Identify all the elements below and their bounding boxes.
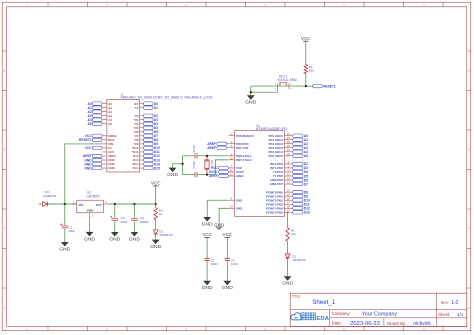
- svg-text:VCC: VCC: [151, 181, 161, 186]
- svg-text:1N4007W: 1N4007W: [292, 258, 306, 262]
- svg-text:ARDUINO_R3_SHIELDUNO_R3_SHIELD: ARDUINO_R3_SHIELDUNO_R3_SHIELD_NOLABELS_…: [121, 96, 214, 100]
- svg-text:ATMEGA328P-PU: ATMEGA328P-PU: [256, 127, 287, 131]
- svg-text:PB7 XTAL2: PB7 XTAL2: [236, 158, 252, 162]
- svg-text:10k: 10k: [309, 69, 314, 73]
- svg-text:TX: TX: [135, 106, 139, 110]
- svg-text:Company:: Company:: [332, 311, 351, 316]
- svg-text:OUT: OUT: [96, 203, 102, 207]
- svg-text:VCC: VCC: [202, 232, 212, 237]
- svg-text:A5: A5: [108, 122, 112, 126]
- svg-text:GND: GND: [87, 208, 93, 212]
- svg-text:10uF: 10uF: [68, 229, 75, 233]
- svg-text:GND: GND: [129, 236, 140, 242]
- svg-text:GND: GND: [84, 236, 95, 242]
- svg-text:10uF: 10uF: [121, 220, 128, 224]
- svg-text:K4-6-6_SMD: K4-6-6_SMD: [278, 78, 298, 82]
- svg-text:GND: GND: [202, 221, 213, 227]
- svg-text:PCINT5 PB5: PCINT5 PB5: [266, 210, 283, 214]
- svg-text:Your Company: Your Company: [362, 312, 398, 318]
- svg-text:1N4007W: 1N4007W: [43, 194, 57, 198]
- svg-text:2023-06-23: 2023-06-23: [350, 321, 380, 327]
- svg-text:D13: D13: [304, 211, 310, 215]
- svg-text:EDA: EDA: [316, 316, 329, 322]
- svg-text:Drawn By:: Drawn By:: [387, 321, 406, 326]
- svg-text:GND: GND: [282, 281, 293, 287]
- svg-text:B: B: [468, 69, 470, 73]
- svg-text:VCC: VCC: [301, 36, 311, 41]
- svg-text:1N4007W: 1N4007W: [159, 233, 173, 237]
- svg-text:AREF: AREF: [207, 146, 216, 150]
- svg-text:PC5 ADC5: PC5 ADC5: [269, 154, 284, 158]
- svg-text:RESET1: RESET1: [323, 84, 336, 88]
- svg-text:C5 22p: C5 22p: [194, 161, 196, 169]
- svg-text:D1: D1: [154, 106, 158, 110]
- svg-text:GND: GND: [214, 222, 225, 227]
- svg-text:GND: GND: [59, 246, 70, 252]
- svg-text:AREF: AREF: [236, 174, 244, 178]
- svg-text:B: B: [4, 69, 6, 73]
- svg-text:GND: GND: [202, 285, 213, 291]
- svg-text:GND: GND: [236, 206, 243, 210]
- svg-text:D: D: [3, 148, 5, 152]
- svg-text:100nf: 100nf: [211, 262, 218, 266]
- svg-text:nickvick: nickvick: [413, 321, 431, 327]
- svg-text:D: D: [468, 148, 470, 152]
- svg-text:1.0: 1.0: [451, 300, 458, 306]
- svg-text:GND: GND: [222, 285, 233, 291]
- svg-text:VIN: VIN: [78, 203, 83, 207]
- svg-text:GND: GND: [108, 166, 115, 170]
- svg-text:REV:: REV:: [441, 301, 450, 305]
- svg-text:A5: A5: [87, 122, 91, 126]
- svg-text:TITLE:: TITLE:: [292, 294, 302, 298]
- svg-text:100nf: 100nf: [231, 262, 238, 266]
- svg-text:X1 16M: X1 16M: [212, 160, 214, 168]
- svg-text:100NF: 100NF: [140, 220, 149, 224]
- svg-text:GND: GND: [84, 166, 92, 170]
- svg-text:A5: A5: [304, 154, 308, 158]
- svg-text:D15: D15: [154, 166, 160, 170]
- svg-text:RESET1: RESET1: [79, 138, 92, 142]
- svg-text:SCL: SCL: [133, 166, 139, 170]
- svg-text:GND: GND: [109, 236, 120, 242]
- svg-text:1k: 1k: [159, 212, 163, 216]
- svg-text:PC6 RESET#: PC6 RESET#: [236, 134, 254, 138]
- svg-text:Date:: Date:: [332, 321, 342, 326]
- svg-text:VCC: VCC: [223, 232, 233, 237]
- svg-text:10k: 10k: [291, 232, 296, 236]
- svg-text:1/1: 1/1: [457, 312, 464, 317]
- svg-text:H: H: [468, 306, 470, 310]
- svg-text:GND: GND: [245, 100, 256, 106]
- svg-text:H: H: [3, 306, 5, 310]
- svg-text:D7: D7: [304, 182, 308, 186]
- svg-text:Sheet_1: Sheet_1: [312, 299, 336, 306]
- svg-text:GND: GND: [150, 244, 161, 250]
- svg-text:C4 22p: C4 22p: [194, 144, 196, 152]
- svg-text:PD1 TXD: PD1 TXD: [236, 146, 248, 150]
- svg-text:VCC: VCC: [85, 146, 93, 150]
- svg-text:Sheet:: Sheet:: [438, 312, 450, 317]
- svg-text:AIN1 PD7: AIN1 PD7: [270, 182, 284, 186]
- svg-text:GND: GND: [236, 198, 243, 202]
- svg-text:GND: GND: [167, 172, 178, 178]
- svg-text:LM7805T: LM7805T: [87, 194, 101, 198]
